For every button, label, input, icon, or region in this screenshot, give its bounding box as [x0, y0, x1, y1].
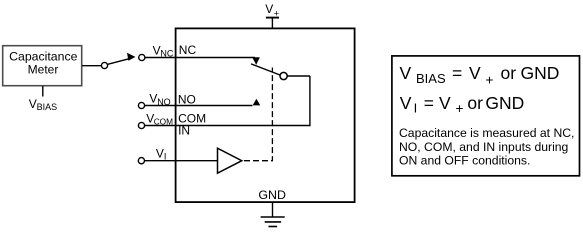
note paragraph: [399, 126, 574, 168]
wire throw to right: [287, 75, 310, 77]
V_BIAS stub wire: [42, 86, 44, 97]
svg-text:Meter: Meter: [28, 63, 59, 77]
ground bar 2: [265, 221, 281, 223]
V_COM label: [146, 112, 173, 127]
svg-text:IN: IN: [178, 124, 190, 138]
V_NC label: [153, 44, 174, 59]
COM pin circle: [138, 122, 144, 128]
svg-text:=: =: [424, 93, 434, 113]
svg-text:NC: NC: [179, 43, 197, 57]
V_BIAS label: [29, 97, 57, 112]
svg-text:GND: GND: [521, 63, 560, 83]
svg-text:GND: GND: [485, 93, 524, 113]
switch pole circle: [101, 62, 107, 68]
svg-text:Capacitance is measured at NC,: Capacitance is measured at NC,: [399, 126, 574, 140]
svg-text:V: V: [439, 93, 451, 113]
svg-text:Capacitance: Capacitance: [9, 50, 78, 64]
V+ stub wire: [271, 18, 273, 28]
note box: [392, 56, 580, 176]
internal switch arm: [251, 64, 280, 75]
svg-text:V: V: [400, 63, 412, 83]
control dashed line: [244, 68, 272, 161]
NC pin wire: [145, 57, 255, 59]
NC pin circle: [139, 54, 145, 60]
wire meter to switch pole: [82, 65, 101, 67]
svg-text:V: V: [469, 63, 481, 83]
svg-text:or: or: [501, 63, 517, 83]
NO pin wire: [145, 105, 253, 107]
svg-text:GND: GND: [258, 188, 286, 202]
buffer driver U1: [218, 148, 242, 173]
NC contact arrowhead (down): [252, 57, 260, 65]
capacitance meter box: [3, 46, 82, 86]
svg-text:=: =: [452, 63, 462, 83]
switch arm: [108, 59, 130, 65]
NO pin circle: [138, 102, 144, 108]
svg-text:BIAS: BIAS: [37, 102, 58, 112]
svg-text:NO: NO: [178, 93, 196, 107]
COM pin wire: [145, 125, 310, 127]
IN pin circle: [138, 158, 144, 164]
IN pin wire: [145, 160, 218, 162]
svg-text:BIAS: BIAS: [416, 71, 446, 86]
switch IC box: [176, 28, 355, 202]
svg-text:+: +: [486, 73, 494, 88]
V_NO label: [149, 92, 170, 107]
V_I label: [156, 146, 167, 161]
note line 1: V_BIAS = V+ or GND: [400, 63, 560, 87]
svg-text:+: +: [456, 101, 464, 116]
GND stub wire: [272, 202, 274, 217]
svg-text:I: I: [414, 101, 418, 116]
note line 2: V_I = V+ or GND: [400, 93, 525, 116]
V+ label: [265, 2, 279, 19]
ground bar 3: [269, 226, 278, 228]
svg-text:V: V: [156, 146, 164, 160]
switch throw circle: [280, 72, 287, 79]
ground bar 1: [261, 216, 285, 218]
V+ rail bar: [266, 17, 279, 19]
svg-text:ON and OFF conditions.: ON and OFF conditions.: [399, 154, 530, 168]
switch arm arrowhead: [127, 53, 135, 61]
svg-text:NO, COM, and IN inputs during: NO, COM, and IN inputs during: [399, 140, 568, 154]
NO contact arrowhead: [253, 99, 261, 106]
svg-text:V: V: [400, 93, 412, 113]
wire down to COM: [309, 76, 311, 126]
svg-text:V: V: [265, 2, 273, 16]
svg-text:or: or: [467, 93, 483, 113]
